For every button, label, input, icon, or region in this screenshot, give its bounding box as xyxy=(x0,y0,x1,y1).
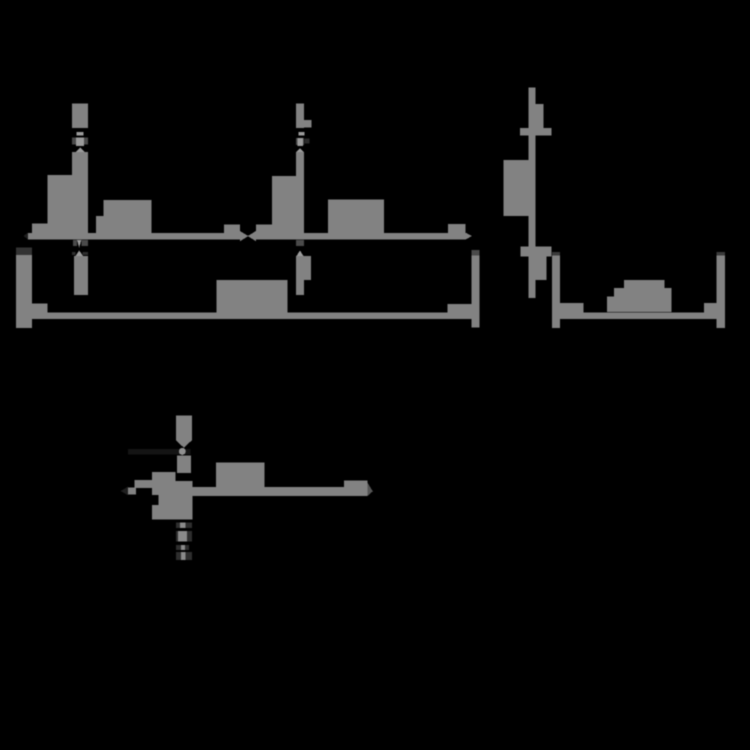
node: small dot at axis crossing xyxy=(179,448,186,455)
wire: vertical axis upper segment xyxy=(176,416,192,441)
tick mark: bump before baseline right arrow xyxy=(448,224,465,234)
arrowhead: V2 below-baseline up-arrow xyxy=(297,251,304,257)
label blob: pulse-2 text xyxy=(272,176,296,234)
arrowhead: V1 below-baseline up-arrow xyxy=(72,252,75,255)
arrowhead: V1 up-arrow tip xyxy=(76,148,85,153)
tick mark: baseline bump left of junction xyxy=(224,224,240,233)
extension tick: figure-1 right xyxy=(472,250,480,255)
wire: vertical axis connector xyxy=(177,456,191,474)
label blob: V3 text xyxy=(503,160,528,216)
label blob: figure-2 text hump xyxy=(607,297,614,312)
dimension line V2 middle segment xyxy=(296,152,304,234)
arrowhead: V2 down-arrow dash xyxy=(299,132,305,136)
arrowhead: V1 down-arrow body xyxy=(72,137,88,144)
arrowhead: V2 down-arrow body xyxy=(296,138,304,145)
arrowhead: period right xyxy=(448,304,472,313)
label blob: text body notch xyxy=(152,495,158,505)
arrowhead: figure-2 left foot xyxy=(560,303,584,313)
arrowhead: V3 lower crossbar xyxy=(521,246,552,256)
wire: waveform baseline right segment xyxy=(256,233,466,240)
label blob: text rect B xyxy=(216,463,264,488)
label blob: V3 hook xyxy=(535,104,543,129)
wire: dashed axis continuation dash 3 xyxy=(176,545,189,550)
label blob: mid rectangle text xyxy=(104,200,152,234)
arrowhead: V3 upper crossbar xyxy=(520,128,552,136)
label blob: text block A xyxy=(152,472,175,481)
wire: dashed axis continuation dash 4 xyxy=(176,552,192,560)
dimension line V1 upper segment xyxy=(72,104,88,129)
tick mark: baseline bump right of junction xyxy=(256,224,272,233)
arrowhead: period left xyxy=(32,304,48,317)
arrowhead: V1 down-arrow dash xyxy=(76,132,83,136)
arrowhead: junction right-pointing xyxy=(240,231,248,241)
arrowhead: figure-2 right foot xyxy=(704,303,722,313)
dimension line V1 middle segment xyxy=(72,152,88,234)
label blob: V2 hook xyxy=(304,120,312,128)
arrowhead: baseline left tip xyxy=(24,233,28,240)
wire: waveform baseline left segment xyxy=(28,233,240,240)
arrowhead: V1 below-baseline down-arrow xyxy=(73,240,77,246)
dimension line V3 (vertical) xyxy=(528,88,535,298)
arrowhead: V2 up-arrow tip xyxy=(297,148,304,152)
label blob: V3 lower-right block xyxy=(530,256,546,279)
arrowhead: baseline right tip xyxy=(466,233,472,240)
arrowhead: axis down-arrow xyxy=(176,440,192,448)
arrowhead: junction left-pointing xyxy=(248,231,256,241)
dimension line V1 lower segment xyxy=(74,256,88,295)
arrowhead: V2 below-baseline down-arrow xyxy=(296,240,304,246)
label blob: mid rectangle step xyxy=(96,216,104,234)
arrowhead: horizontal line end bump xyxy=(344,480,367,496)
label blob: right rectangle text xyxy=(328,200,384,234)
dimension line: figure-1 bottom period xyxy=(32,312,472,319)
dimension line: figure-2 bottom xyxy=(552,313,725,319)
wire: horizontal line xyxy=(192,487,367,496)
label blob: V2 lower-right block xyxy=(304,256,311,280)
extension tick: figure-2 left xyxy=(552,252,560,255)
wire: dashed axis continuation dash 1 xyxy=(176,523,192,529)
label blob: pulse-1 text xyxy=(48,175,73,234)
label blob: text body xyxy=(152,481,193,520)
arrowhead: left-pointing arrow xyxy=(135,480,152,488)
wire: dashed axis continuation dash 2 xyxy=(176,531,192,541)
label blob: period text xyxy=(216,280,287,313)
extension tick: figure-1 left xyxy=(16,248,32,256)
wire: thin dark horizontal line xyxy=(128,449,190,454)
dimension line V2 lower segment xyxy=(296,256,304,295)
label blob: pulse-1 text foot xyxy=(32,224,47,234)
extension tick: figure-2 right xyxy=(716,252,724,255)
dimension line V2 upper segment xyxy=(296,104,304,129)
